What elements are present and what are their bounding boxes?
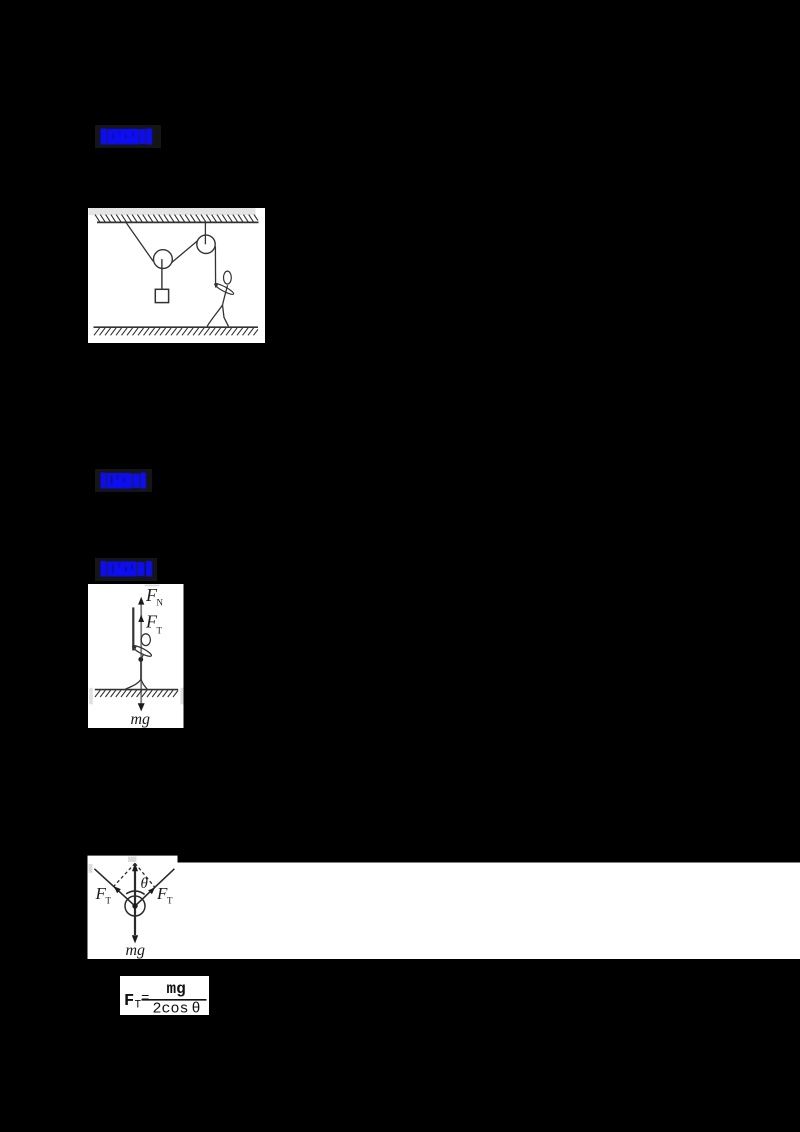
- svg-text:N: N: [157, 598, 164, 608]
- F_T arrowhead: [138, 615, 144, 622]
- gray left patch: [89, 864, 93, 873]
- gray edge patches: [89, 688, 93, 705]
- rope to person: [214, 247, 216, 288]
- left leg: [125, 680, 141, 690]
- blue label 3: [94, 555, 162, 583]
- knot dot: [132, 903, 137, 908]
- left rope line: [94, 869, 135, 906]
- arms: [131, 644, 152, 658]
- person left leg: [207, 305, 222, 326]
- person arms: [214, 282, 235, 296]
- right rope line: [135, 869, 174, 906]
- gray strip: [145, 585, 160, 587]
- knot circle: [125, 896, 145, 916]
- figure 1: pulley system: [88, 208, 265, 343]
- hands grip: [214, 283, 219, 287]
- resultant arrow: [134, 871, 136, 906]
- weight arrow: [134, 906, 136, 935]
- hands grip: [132, 646, 137, 650]
- F_N arrowhead: [138, 597, 144, 605]
- angle arc: [126, 891, 144, 894]
- ground line: [94, 326, 259, 328]
- movable pulley: [154, 250, 173, 269]
- right leg: [141, 680, 147, 690]
- blue label 1: [94, 122, 164, 150]
- neck/body: [141, 654, 144, 659]
- dashed parallelogram: [114, 863, 155, 887]
- rope between pulleys: [172, 240, 198, 262]
- rope from ceiling to movable pulley: [126, 222, 153, 261]
- svg-text:2cos θ: 2cos θ: [153, 1001, 201, 1016]
- white band: [88, 856, 178, 959]
- person head: [224, 271, 232, 284]
- rope: [132, 607, 134, 650]
- pulley hanger: [204, 222, 206, 244]
- svg-text:T: T: [106, 896, 112, 906]
- ceiling gray band: [89, 208, 256, 215]
- svg-text:mg: mg: [167, 980, 186, 998]
- svg-text:F: F: [124, 992, 134, 1011]
- F_T right arrowhead: [148, 888, 155, 895]
- mass dot: [138, 657, 143, 662]
- block: [155, 289, 168, 302]
- svg-text:T: T: [157, 626, 163, 636]
- svg-text:T: T: [167, 896, 173, 906]
- person right leg: [223, 305, 229, 326]
- ground hatch: [94, 328, 258, 335]
- svg-text:mg: mg: [131, 711, 151, 728]
- load string: [161, 259, 163, 289]
- person body: [223, 285, 228, 305]
- gray top patch: [128, 857, 136, 862]
- figure 3: force diagram band: [87, 855, 800, 959]
- force arrow shaft: [140, 600, 142, 704]
- ground hatch: [95, 690, 178, 697]
- ceiling line: [97, 221, 259, 223]
- svg-text:θ: θ: [141, 876, 149, 892]
- ground line: [95, 689, 178, 691]
- formula box: [120, 976, 209, 1015]
- fixed pulley: [197, 235, 215, 253]
- svg-text:mg: mg: [126, 942, 146, 959]
- blue label 2: [94, 466, 156, 494]
- figure 2: free-body of person: [88, 584, 184, 728]
- F_T left arrowhead: [114, 886, 121, 893]
- mg arrowhead: [138, 703, 145, 711]
- head: [141, 634, 150, 646]
- ceiling hatch: [95, 215, 258, 223]
- fraction bar: [142, 999, 207, 1001]
